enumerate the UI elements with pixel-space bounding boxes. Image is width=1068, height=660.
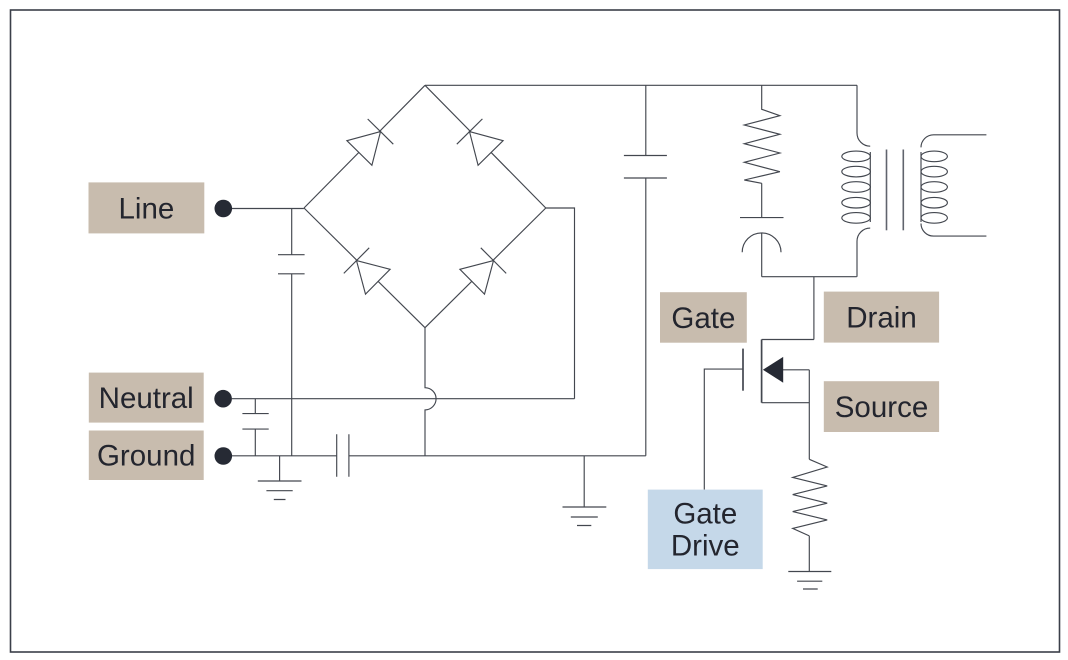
label Source	[824, 381, 939, 432]
transformer T1 secondary lead top	[921, 135, 986, 148]
resistor R1 (snubber)	[744, 85, 780, 183]
label Ground	[89, 431, 204, 481]
wire: drain drop from snubber wire	[813, 277, 815, 340]
wire: gate lead to gate drive	[704, 369, 743, 490]
node Neutral terminal dot	[214, 390, 232, 408]
transformer T1 primary winding	[842, 151, 871, 223]
capacitor C4 (bulk cap on DC bus)	[624, 85, 667, 456]
diode D4 (bridge lower-right)	[460, 248, 506, 294]
svg-text:Ground: Ground	[97, 440, 195, 473]
wire: bridge edge left-top	[304, 85, 425, 208]
wire: bridge edge top-right	[425, 85, 546, 208]
wire: top bus from bridge to transformer	[425, 84, 857, 86]
wire: ground rail left of X-cap	[232, 455, 337, 457]
wire: bridge edge bottom-right	[425, 208, 546, 328]
ground symbol G1	[258, 456, 302, 500]
node Ground terminal dot	[215, 447, 233, 465]
ground symbol G2	[563, 456, 607, 526]
transformer T1 core lines	[887, 150, 904, 231]
transformer T1 secondary lead bottom	[921, 224, 986, 237]
svg-text:Line: Line	[119, 192, 175, 225]
svg-text:Gate: Gate	[671, 302, 735, 335]
wire: Line input to bridge left vertex	[232, 208, 304, 210]
transformer T1 primary lead top	[857, 85, 870, 146]
diode D1 (bridge upper-left)	[347, 119, 393, 165]
capacitor C2 (neutral to ground)	[242, 399, 268, 456]
wire: source connection	[762, 402, 810, 404]
wire: snubber bottom to transformer primary bottom	[762, 276, 857, 278]
wire: ground rail right of X-cap	[349, 455, 646, 457]
svg-text:Drain: Drain	[846, 301, 917, 334]
wire: source down to resistor	[808, 370, 810, 460]
svg-text:Source: Source	[835, 391, 928, 424]
capacitor C1 (Line to ground)	[278, 209, 305, 456]
label Gate Drive	[648, 490, 763, 569]
transformer T1 secondary winding	[921, 151, 947, 223]
capacitor C5 (snubber, curved plate)	[740, 183, 784, 276]
svg-text:Gate: Gate	[673, 498, 737, 531]
wire: bridge bottom vertex down with hop over neutral	[425, 328, 436, 456]
wire: body connection	[783, 369, 809, 371]
diode D2 (bridge upper-right)	[457, 119, 503, 165]
node Line terminal dot	[215, 200, 233, 218]
svg-text:Drive: Drive	[671, 530, 740, 563]
ground symbol G3	[788, 536, 831, 589]
wire: neutral rail	[232, 398, 575, 400]
label Neutral	[89, 373, 204, 423]
transformer T1 primary lead bottom	[857, 228, 870, 277]
diode D3 (bridge lower-left)	[344, 248, 390, 294]
wire: bridge edge bottom-left	[304, 208, 425, 328]
label Drain	[824, 292, 939, 343]
capacitor C3 (X-cap in ground rail)	[337, 434, 349, 477]
label Line	[89, 182, 205, 233]
transistor Q1 gate bar	[742, 349, 744, 391]
svg-text:Neutral: Neutral	[99, 382, 194, 415]
wire: bridge right vertex down to neutral	[546, 208, 575, 399]
wire: drain connection	[762, 339, 814, 341]
resistor R2 (source)	[793, 459, 828, 536]
transistor Q1 body arrow	[763, 357, 783, 383]
transistor Q1 channel bar	[761, 340, 763, 403]
label Gate	[660, 292, 747, 343]
